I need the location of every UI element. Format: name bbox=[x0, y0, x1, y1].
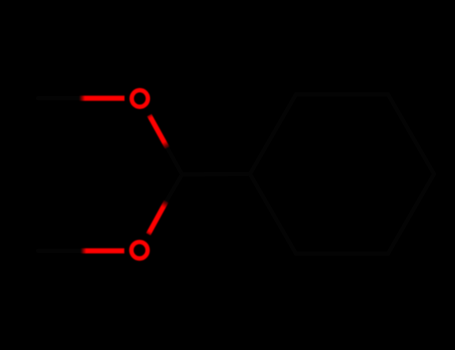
atom: top O bbox=[132, 90, 148, 107]
wire: top methyl half-bond (C side of CH3-O bond) bbox=[38, 96, 80, 100]
bond: top O-CH3 red half bbox=[79, 96, 125, 101]
ring: hexagon bbox=[250, 94, 434, 253]
atom: bottom O bbox=[131, 242, 147, 259]
bond: bottom O-CH3 red half bbox=[81, 248, 125, 253]
wire: bottom methyl half-bond (C side of CH3-O bond) bbox=[38, 249, 83, 253]
hidden carbon skeleton (flattened black-on-black, barely visible) bbox=[38, 94, 434, 253]
wire: CH to ring bond bbox=[182, 172, 250, 177]
bond: top O-CH red half (diagonal) bbox=[149, 115, 167, 148]
bond: bottom O-CH red half (diagonal) bbox=[148, 201, 166, 234]
wire: bottom O-CH black half-bond bbox=[166, 174, 182, 201]
wire: top O-CH black half-bond bbox=[167, 148, 182, 174]
